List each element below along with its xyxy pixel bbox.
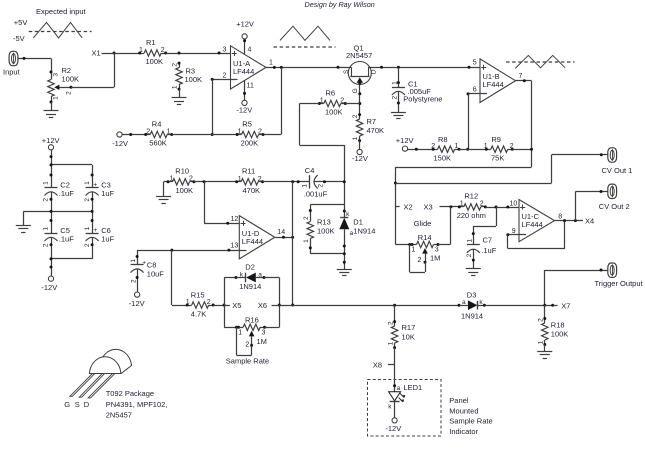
wire sample box right [278, 278, 281, 328]
svg-text:a: a [462, 299, 466, 306]
potentiometer R16 1M Sample Rate [224, 315, 279, 348]
wire +12V rail [50, 150, 53, 188]
potentiometer R14 1M Glide [411, 233, 441, 264]
wire U1-B pin6 down to R8 node [466, 94, 469, 151]
svg-text:R10: R10 [175, 166, 189, 175]
wire R10 to R11 [194, 180, 237, 183]
wire Q1 drain to U1-B pin 5 [368, 66, 487, 69]
svg-text:10K: 10K [402, 333, 415, 342]
svg-text:1: 1 [352, 136, 359, 140]
wire R14 wiper loop [410, 245, 426, 273]
svg-text:R4: R4 [152, 119, 162, 128]
svg-text:.1uF: .1uF [59, 235, 74, 244]
op-amp U1-D [239, 216, 274, 259]
wire R2 wiper to X1 node [71, 52, 116, 88]
svg-text:2: 2 [161, 47, 165, 54]
svg-text:R9: R9 [491, 135, 501, 144]
svg-text:1: 1 [43, 226, 50, 230]
resistor R5 200K [236, 119, 265, 147]
svg-text:a: a [258, 272, 262, 279]
svg-text:.1uF: .1uF [59, 189, 74, 198]
svg-text:1N914: 1N914 [353, 226, 375, 235]
wire +12V to R8 [408, 148, 434, 151]
svg-text:1: 1 [130, 259, 137, 263]
svg-text:100K: 100K [325, 108, 343, 117]
svg-text:5: 5 [473, 60, 477, 67]
svg-text:1: 1 [172, 85, 179, 89]
wire U1-C pin 9 feedback [506, 221, 565, 249]
svg-text:Panel: Panel [449, 396, 469, 405]
wire R7 to -12V [359, 141, 361, 150]
svg-text:S: S [343, 69, 350, 74]
svg-text:Sample Rate: Sample Rate [226, 357, 269, 366]
svg-text:1uF: 1uF [101, 189, 114, 198]
wire trigger output down to X7 node [544, 269, 607, 306]
node X3 [424, 202, 460, 211]
diode D3 1N914 [458, 290, 486, 320]
dashed panel box [368, 380, 442, 437]
svg-text:Expected input: Expected input [36, 7, 87, 16]
ground at cap bank [16, 226, 31, 233]
svg-text:.001uF: .001uF [304, 190, 328, 199]
svg-text:R5: R5 [242, 119, 252, 128]
wire bottom tee [50, 237, 94, 260]
wire -12V to R4 [122, 133, 146, 136]
svg-text:Polystyrene: Polystyrene [403, 95, 442, 104]
resistor R7 470K [352, 113, 384, 142]
wire U1-B output [516, 73, 532, 82]
svg-text:2: 2 [84, 243, 91, 247]
svg-text:R17: R17 [402, 323, 416, 332]
resistor R18 100K [538, 305, 569, 346]
svg-text:2: 2 [43, 243, 50, 247]
connector CV Out 1 jack [602, 148, 633, 175]
wire LED1 to -12V [394, 402, 396, 418]
wire input node down to R2 pin 3 [51, 58, 53, 72]
svg-text:G: G [352, 88, 359, 93]
svg-text:470K: 470K [243, 186, 261, 195]
svg-text:1: 1 [53, 96, 60, 100]
svg-text:2: 2 [418, 257, 422, 264]
capacitor C5 .1uF [43, 226, 75, 247]
svg-text:CV Out 2: CV Out 2 [599, 202, 630, 211]
svg-text:470K: 470K [367, 126, 385, 135]
svg-text:C7: C7 [483, 235, 493, 244]
resistor R10 100K [167, 166, 196, 195]
svg-text:4.7K: 4.7K [191, 309, 206, 318]
svg-text:1: 1 [302, 184, 309, 188]
svg-text:2: 2 [480, 201, 484, 208]
svg-text:75K: 75K [491, 153, 504, 162]
wire U1-B pin 6 [467, 86, 488, 95]
svg-text:100K: 100K [551, 329, 569, 338]
connector CV Out 2 jack [599, 184, 630, 211]
node X8 [373, 361, 395, 370]
wire R17 to X8 [394, 348, 396, 365]
svg-text:X1: X1 [92, 48, 101, 57]
wire to CV Out 2 [575, 190, 607, 221]
svg-text:2: 2 [245, 341, 249, 348]
svg-text:2: 2 [146, 128, 150, 135]
wire R1 to U1-A pin 3 [166, 52, 237, 55]
svg-text:2: 2 [340, 97, 344, 104]
svg-text:2: 2 [431, 143, 435, 150]
connector Input jack [3, 51, 21, 76]
svg-text:2: 2 [207, 299, 211, 306]
svg-text:10: 10 [510, 200, 518, 207]
svg-text:Indicator: Indicator [449, 427, 478, 436]
resistor R3 100K [172, 62, 202, 91]
svg-text:1: 1 [538, 340, 545, 344]
svg-text:Design by Ray Wilson: Design by Ray Wilson [305, 0, 375, 9]
svg-text:1M: 1M [257, 337, 267, 346]
wire R10 node down to U1-D pin 12 [204, 182, 246, 225]
svg-text:1: 1 [84, 226, 91, 230]
wire C2 to C5 [50, 192, 53, 233]
resistor R11 470K [235, 166, 264, 195]
svg-text:2N5457: 2N5457 [106, 411, 132, 420]
svg-text:LF444: LF444 [242, 237, 263, 246]
svg-text:R16: R16 [245, 315, 259, 324]
svg-text:2: 2 [43, 198, 50, 202]
svg-text:X7: X7 [561, 302, 570, 311]
svg-text:1: 1 [455, 143, 459, 150]
node X5 [224, 301, 241, 310]
wire R5 feedback to U1-A output [263, 67, 281, 134]
wire U1-A pin 2 [211, 73, 237, 81]
resistor R15 4.7K [186, 291, 215, 319]
svg-text:-12V: -12V [41, 283, 57, 292]
svg-text:1: 1 [43, 181, 50, 185]
svg-text:C2: C2 [60, 180, 70, 189]
svg-text:-12V: -12V [385, 424, 401, 433]
power -12V terminal below C8 [129, 292, 145, 308]
wire U1-D pin 13 [137, 243, 246, 252]
transistor Q1 2N5457 [343, 43, 378, 94]
svg-text:Mounted: Mounted [449, 406, 478, 415]
svg-text:11: 11 [247, 83, 254, 90]
svg-text:+: + [142, 259, 146, 266]
svg-text:1: 1 [303, 239, 310, 243]
diode D1 1N914 [339, 211, 375, 237]
svg-text:X3: X3 [424, 202, 433, 211]
node X1 [92, 48, 140, 57]
svg-text:2: 2 [387, 321, 394, 325]
svg-text:1: 1 [238, 329, 242, 336]
wire -12V rail [50, 237, 53, 276]
node X6 [258, 301, 279, 310]
wire R12 node down to C7 [472, 207, 497, 245]
capacitor C2 .1uF [43, 180, 75, 201]
svg-text:100K: 100K [185, 75, 203, 84]
svg-text:+12V: +12V [396, 136, 414, 145]
svg-text:X8: X8 [373, 361, 382, 370]
wire R14 pin3 up to X3 [438, 207, 451, 245]
svg-text:1N914: 1N914 [461, 312, 483, 321]
resistor R17 10K [387, 305, 415, 349]
capacitor C1 .005uF [391, 67, 442, 112]
wire D3 to X7 [484, 304, 557, 307]
resistor R12 220 ohm [457, 192, 487, 220]
svg-text:2: 2 [466, 253, 473, 257]
svg-text:2: 2 [391, 96, 398, 100]
svg-text:560K: 560K [149, 139, 167, 148]
svg-text:2: 2 [303, 216, 310, 220]
svg-text:+: + [93, 227, 97, 234]
pin 5 label [473, 60, 477, 67]
power -12V terminal cap bank [41, 276, 57, 292]
svg-text:C6: C6 [101, 226, 111, 235]
op-amp U1-A [231, 46, 267, 89]
resistor R6 100K [318, 88, 347, 116]
svg-text:R1: R1 [146, 38, 156, 47]
svg-text:C3: C3 [101, 180, 111, 189]
ground below C1 [391, 113, 406, 119]
capacitor C7 .1uF [466, 235, 497, 268]
svg-text:2: 2 [84, 198, 91, 202]
svg-text:-12V: -12V [352, 154, 368, 163]
svg-text:200K: 200K [241, 139, 259, 148]
svg-text:-12V: -12V [236, 106, 252, 115]
svg-text:150K: 150K [434, 153, 452, 162]
wire R15 to X5 [213, 304, 225, 307]
power -12V terminal below R7 [352, 149, 368, 162]
svg-text:1: 1 [238, 128, 242, 135]
wire C3 to C6 [91, 192, 94, 233]
wire sample box left [224, 278, 226, 328]
svg-text:PN4391, MPF102,: PN4391, MPF102, [106, 400, 168, 409]
resistor R4 560K [144, 119, 173, 147]
svg-text:2: 2 [66, 91, 73, 95]
wire R6 pin1 loop to C4 node [300, 104, 345, 205]
wire R18 to ground [544, 345, 546, 352]
capacitor C4 .001uF [302, 166, 346, 198]
svg-text:D3: D3 [467, 290, 477, 299]
resistor R8 150K [431, 135, 460, 163]
node X4 [585, 217, 594, 226]
svg-text:4: 4 [248, 46, 252, 53]
svg-text:D: D [84, 400, 90, 409]
svg-text:8: 8 [558, 213, 562, 220]
wire U1-B output down to feedback node [530, 81, 533, 167]
power +12V terminal at R8 [396, 136, 414, 151]
wire R14 pin1 to X2 column [395, 243, 412, 246]
wire top tee to C3 [50, 163, 94, 187]
wire X8 to LED1 [393, 364, 396, 392]
svg-text:100K: 100K [317, 226, 335, 235]
annotation expected input waveform [13, 7, 92, 43]
ground below R18 [537, 352, 552, 359]
ground below C7 [466, 269, 481, 276]
svg-text:R6: R6 [326, 88, 336, 97]
wire R11 to C4 [263, 180, 310, 183]
svg-text:a: a [397, 385, 401, 392]
annotation sampled triangle wave [506, 55, 575, 68]
svg-text:G: G [64, 400, 70, 409]
ground at R10 pin 1 [156, 197, 171, 204]
wire input jack to R2 [18, 57, 51, 60]
wire R6 pin2 to gate node [345, 103, 360, 105]
svg-text:10uF: 10uF [147, 269, 165, 278]
svg-text:1: 1 [484, 143, 488, 150]
svg-text:1: 1 [167, 128, 171, 135]
svg-text:Trigger Output: Trigger Output [595, 279, 644, 288]
svg-text:2: 2 [130, 279, 137, 283]
power -12V to U1-A pin 11 [236, 80, 254, 114]
svg-text:LF444: LF444 [233, 67, 254, 76]
svg-text:7: 7 [519, 73, 523, 80]
node X2 [395, 202, 412, 211]
svg-text:LED1: LED1 [403, 383, 422, 392]
wire to CV Out 1 [395, 153, 607, 183]
wire X6 node to D3 and R17 [279, 304, 459, 307]
svg-text:3: 3 [262, 329, 266, 336]
wire U1-D output [275, 229, 294, 239]
svg-text:14: 14 [277, 229, 285, 236]
svg-text:X5: X5 [232, 301, 241, 310]
svg-text:LF444: LF444 [522, 220, 543, 229]
pin 3 label [223, 47, 227, 54]
annotation triangle wave above ground [274, 26, 336, 47]
svg-text:3: 3 [435, 247, 439, 254]
wire U1-A pin2 down to R4 node [211, 79, 214, 136]
svg-text:3: 3 [53, 73, 60, 77]
potentiometer R2 100K [48, 66, 79, 104]
svg-text:2: 2 [258, 176, 262, 183]
svg-text:2: 2 [258, 128, 262, 135]
svg-text:C4: C4 [305, 166, 315, 175]
svg-text:LF444: LF444 [483, 80, 504, 89]
svg-text:3: 3 [223, 47, 227, 54]
svg-text:2: 2 [352, 114, 359, 118]
svg-text:X2: X2 [404, 202, 413, 211]
svg-text:1: 1 [238, 176, 242, 183]
annotation TO92 labels [106, 389, 168, 420]
resistor R13 100K [303, 216, 335, 243]
svg-text:R14: R14 [418, 233, 432, 242]
annotation panel mounted note [449, 396, 492, 436]
wire U1-D output feedback up to R11 [292, 182, 294, 237]
svg-text:1uF: 1uF [101, 235, 114, 244]
svg-text:100K: 100K [176, 186, 194, 195]
op-amp U1-C [519, 200, 555, 242]
svg-text:R11: R11 [242, 166, 255, 175]
svg-text:1: 1 [412, 247, 416, 254]
wire feedback node to X2 column [394, 167, 532, 245]
svg-text:9: 9 [512, 228, 516, 235]
op-amp U1-B [480, 59, 516, 103]
svg-text:X4: X4 [585, 217, 594, 226]
diode D2 1N914 [224, 262, 279, 291]
svg-text:CV Out 1: CV Out 1 [602, 166, 633, 175]
capacitor C8 10uF [130, 250, 164, 292]
annotation TO92 package drawing [64, 349, 131, 408]
svg-text:1: 1 [84, 181, 91, 185]
svg-text:Glide: Glide [414, 219, 432, 228]
svg-text:12: 12 [231, 216, 239, 223]
svg-text:R15: R15 [191, 291, 205, 300]
wire U1-A output [266, 59, 352, 69]
svg-text:1N914: 1N914 [239, 282, 261, 291]
svg-text:+12V: +12V [236, 19, 254, 28]
svg-text:R8: R8 [438, 135, 448, 144]
svg-text:2: 2 [317, 184, 324, 188]
svg-text:1: 1 [186, 299, 190, 306]
svg-text:X6: X6 [258, 301, 267, 310]
power +12V terminal cap bank [42, 136, 60, 150]
annotation Sample Rate [226, 357, 269, 366]
wire R12 to U1-C pin 10 [485, 200, 526, 208]
wire R16 wiper loop [237, 327, 252, 355]
ground below D1 [337, 270, 352, 276]
svg-text:13: 13 [231, 243, 239, 250]
svg-text:C5: C5 [60, 226, 70, 235]
svg-text:220 ohm: 220 ohm [457, 211, 486, 220]
wire middle tee [23, 210, 93, 226]
wire R4 to R5 [172, 134, 237, 136]
wire R13 D1 bottom to ground [309, 229, 346, 269]
svg-text:+: + [93, 181, 97, 188]
connector Trigger Output jack [595, 263, 644, 288]
svg-text:1: 1 [320, 97, 324, 104]
svg-text:D: D [371, 69, 378, 74]
wire R2 pin1 to ground [51, 102, 53, 111]
svg-text:.1uF: .1uF [481, 246, 496, 255]
svg-text:Sample Rate: Sample Rate [449, 417, 492, 426]
wire U1-C output to X4 [555, 213, 583, 222]
power -12V terminal at R4 [112, 132, 128, 148]
svg-text:1: 1 [139, 47, 143, 54]
ground below R2 [44, 111, 59, 118]
wire ground to R10 [164, 182, 169, 197]
svg-text:1: 1 [170, 176, 174, 183]
annotation Glide [414, 219, 432, 228]
svg-text:100K: 100K [62, 75, 80, 84]
svg-text:R12: R12 [464, 192, 478, 201]
wire Q1 gate down [358, 92, 361, 114]
svg-text:-12V: -12V [112, 139, 128, 148]
LED LED1 [388, 383, 422, 411]
capacitor C3 1uF [84, 180, 115, 201]
svg-text:6: 6 [473, 86, 477, 93]
capacitor C6 1uF [84, 226, 115, 247]
wire R3 to ground [179, 89, 181, 98]
svg-text:1: 1 [460, 201, 464, 208]
svg-text:2: 2 [223, 73, 227, 80]
wire C4 node to R13 and D1 [309, 205, 346, 218]
svg-text:1: 1 [387, 341, 394, 345]
svg-text:Input: Input [3, 68, 21, 77]
svg-text:T092 Package: T092 Package [106, 389, 154, 398]
svg-text:+5V: +5V [14, 18, 28, 27]
svg-text:2: 2 [538, 318, 545, 322]
svg-text:2: 2 [172, 63, 179, 67]
svg-text:S: S [75, 400, 80, 409]
power -12V terminal below LED1 [385, 418, 401, 433]
svg-text:1: 1 [392, 81, 399, 85]
wire U1-D pin13 node down to R15 [172, 250, 188, 305]
wire R9 to U1-B output node [512, 149, 531, 151]
svg-text:+12V: +12V [42, 136, 60, 145]
power +12V to U1-A pin 4 [236, 19, 254, 54]
svg-text:-12V: -12V [129, 299, 145, 308]
svg-text:-5V: -5V [13, 34, 25, 43]
svg-text:1M: 1M [430, 253, 440, 262]
svg-text:2: 2 [189, 176, 193, 183]
wire R8 to R9 [459, 149, 486, 151]
svg-text:D2: D2 [245, 262, 255, 271]
resistor R1 100K [138, 38, 167, 66]
